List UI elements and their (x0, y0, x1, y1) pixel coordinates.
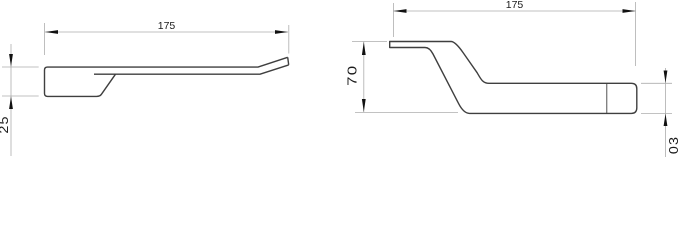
right view: part outline (side profile with S-bend) (390, 42, 637, 114)
arrow left of 175 (right view) (394, 9, 407, 13)
svg-text:25: 25 (0, 115, 11, 133)
right view dimension 175 (393, 2, 635, 66)
svg-text:03: 03 (667, 136, 678, 154)
arrow above pointing down to y=83.3 (664, 71, 668, 83)
left view: part outline (top profile of holder) (45, 57, 289, 96)
right view outline (390, 42, 637, 114)
svg-text:175: 175 (158, 20, 176, 32)
arrow down to y=112.4 (362, 99, 366, 112)
left view inner arm underside line (94, 65, 289, 74)
end cap divider line on arm (606, 83, 608, 113)
svg-text:175: 175 (506, 0, 524, 11)
extension line right (x=635.6) (635, 2, 637, 66)
extension line top (y=41.5) (352, 41, 387, 43)
left view dimension 175 (45, 23, 289, 55)
dim line 175 left view (45, 31, 288, 33)
right view dimension 70 (352, 42, 458, 113)
dim line 175 right view (394, 10, 636, 12)
extension line bottom (y=96) (2, 95, 39, 97)
arrow up to y=41.5 (362, 42, 366, 55)
extension line top (y=67) (2, 66, 39, 68)
arrow right of 175 (left view) (275, 30, 288, 34)
right view dimension 30 (641, 68, 672, 157)
left view dimension 25 (2, 44, 39, 156)
extension line left (x=393.4) (392, 3, 394, 37)
extension line right (x=288.8) (288, 25, 290, 54)
dim line 30 (665, 68, 667, 157)
dim line 25 (10, 44, 12, 156)
arrow above pointing down to y=67 (9, 54, 13, 67)
extension line top (y=83.3) (641, 82, 672, 84)
left view tip end cap (288, 57, 289, 65)
extension line bottom (y=112.4) (355, 111, 458, 113)
extension line left (x=44.6) (44, 23, 46, 55)
arrow below pointing up to y=113.8 (664, 114, 668, 126)
extension line bottom (y=113.4) (641, 112, 672, 114)
arrow left of 175 (left view) (45, 30, 58, 34)
dim line 70 (363, 42, 365, 113)
arrow right of 175 (right view) (623, 9, 636, 13)
arrow below pointing up to y=96 (9, 96, 13, 109)
svg-text:70: 70 (345, 65, 360, 86)
left view outer outline (45, 57, 288, 96)
